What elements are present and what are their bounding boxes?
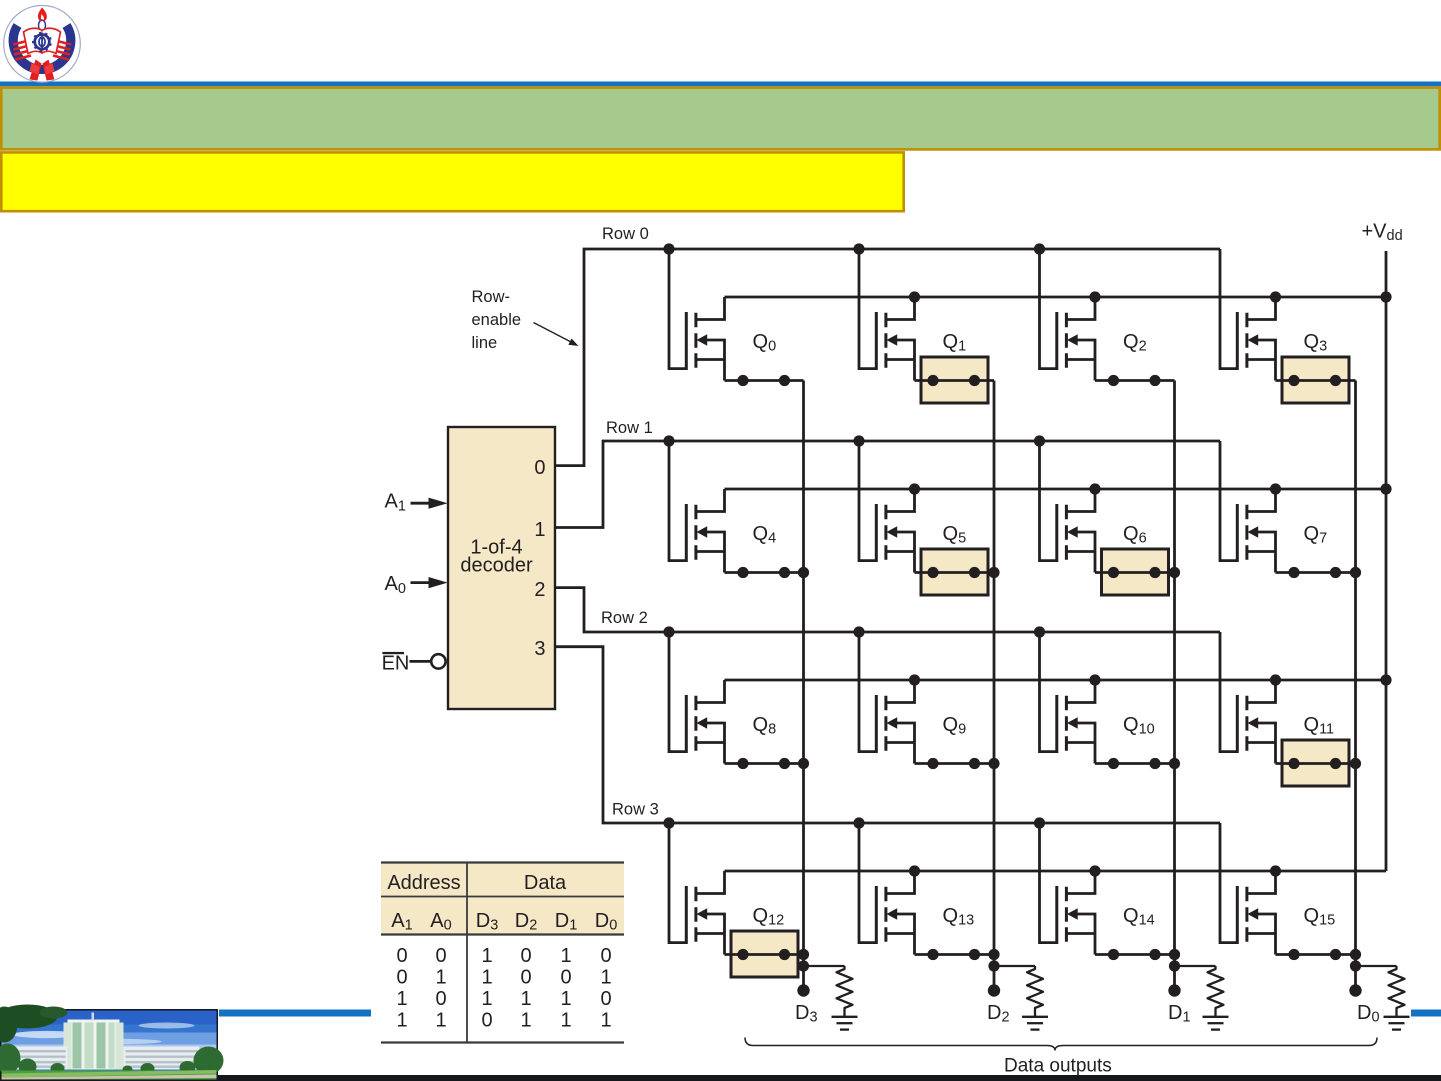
column D3 junction dots — [798, 567, 809, 972]
transistor Q9 — [859, 632, 994, 764]
svg-text:D2: D2 — [987, 1002, 1010, 1026]
svg-text:1: 1 — [481, 945, 492, 967]
svg-text:decoder: decoder — [460, 555, 533, 577]
transistor Q4 — [669, 441, 804, 573]
output terminal D2 — [988, 984, 1000, 996]
1-of-4 decoder U1 — [448, 427, 555, 709]
svg-text:Q8: Q8 — [753, 714, 777, 738]
svg-text:Data outputs: Data outputs — [1004, 1056, 1112, 1077]
svg-text:Data: Data — [524, 872, 567, 894]
programmed cell box at Q3 — [1282, 357, 1349, 403]
decoder output pin labels 0 1 2 3 — [534, 457, 545, 660]
transistor Q13 — [859, 823, 994, 955]
yellow subtitle banner — [1, 152, 903, 211]
svg-text:1: 1 — [520, 1010, 531, 1032]
drain rail row 0 junction dots — [909, 291, 1392, 302]
transistor Q6 — [1040, 441, 1175, 573]
transistor Q11 — [1220, 632, 1356, 764]
svg-text:Q2: Q2 — [1123, 331, 1147, 355]
output terminal D3 — [797, 984, 809, 996]
svg-text:Q6: Q6 — [1123, 523, 1147, 547]
transistor Q15 — [1220, 823, 1356, 955]
source connection dots Q1 — [927, 375, 980, 386]
resistor tap wire D1 — [1175, 965, 1216, 967]
truth table header text — [387, 872, 567, 894]
source connection dots Q3 — [1288, 375, 1341, 386]
svg-text:Row-: Row- — [472, 288, 511, 306]
svg-text:EN: EN — [382, 653, 410, 675]
source connection dots Q12 — [737, 949, 790, 960]
svg-text:Q3: Q3 — [1304, 331, 1328, 355]
output terminal D0 — [1349, 984, 1361, 996]
source connection dots Q14 — [1108, 949, 1161, 960]
header blue rule — [0, 82, 1441, 87]
svg-text:Row 1: Row 1 — [606, 419, 653, 437]
node dots on row 3 line — [663, 817, 1045, 828]
svg-text:Address: Address — [387, 872, 460, 894]
green title banner — [1, 88, 1439, 150]
transistor Q8 — [669, 632, 804, 764]
truth table grid lines — [381, 863, 624, 1043]
source connection dots Q10 — [1108, 758, 1161, 769]
svg-text:Q15: Q15 — [1304, 905, 1336, 929]
svg-text:0: 0 — [600, 988, 611, 1010]
source connection dots Q8 — [737, 758, 790, 769]
truth table header fill — [381, 863, 624, 935]
data column line D3 — [802, 381, 805, 991]
truth table column heads — [391, 910, 617, 934]
svg-text:Q7: Q7 — [1304, 523, 1328, 547]
svg-text:1: 1 — [435, 1010, 446, 1032]
enable input EN (active low) — [382, 652, 446, 675]
svg-text:0: 0 — [560, 967, 571, 989]
transistor Q5 — [859, 441, 994, 573]
drain rail row 1 junction dots — [909, 483, 1392, 494]
svg-text:0: 0 — [600, 945, 611, 967]
svg-text:0: 0 — [520, 945, 531, 967]
resistor tap wire D0 — [1356, 965, 1397, 967]
svg-text:Q1: Q1 — [943, 331, 967, 355]
svg-text:D1: D1 — [1168, 1002, 1191, 1026]
svg-text:0: 0 — [396, 945, 407, 967]
node dots on row 0 line — [663, 243, 1045, 254]
row-enable line annotation — [472, 288, 579, 352]
svg-text:0: 0 — [435, 945, 446, 967]
column D1 junction dots — [1169, 567, 1180, 972]
source connection dots Q0 — [737, 375, 790, 386]
university logo — [4, 6, 81, 83]
svg-text:3: 3 — [534, 638, 545, 660]
transistor Q0 — [669, 249, 804, 381]
drain rail row 0 — [725, 296, 1387, 299]
source connection dots Q2 — [1108, 375, 1161, 386]
svg-text:1: 1 — [481, 988, 492, 1010]
svg-text:Q5: Q5 — [943, 523, 967, 547]
source connection dots Q6 — [1108, 567, 1161, 578]
data column line D2 — [993, 381, 996, 991]
+Vdd vertical supply line — [1385, 251, 1388, 871]
pull-down resistor at D2 — [1027, 966, 1043, 1016]
ground symbol at D1 — [1203, 1017, 1229, 1030]
input A1 — [385, 491, 448, 515]
svg-text:+Vdd: +Vdd — [1362, 221, 1403, 245]
svg-text:Q11: Q11 — [1304, 714, 1335, 738]
svg-text:1: 1 — [534, 519, 545, 541]
output terminal D1 — [1168, 984, 1180, 996]
node dots on row 2 line — [663, 626, 1045, 637]
pull-down resistor at D3 — [837, 966, 853, 1016]
svg-text:Row 2: Row 2 — [601, 609, 648, 627]
transistor Q14 — [1040, 823, 1175, 955]
bottom right blue rule — [1411, 1010, 1441, 1017]
input A0 — [385, 573, 448, 597]
svg-text:Q10: Q10 — [1123, 714, 1155, 738]
transistor Q12 — [669, 823, 804, 955]
svg-text:A0: A0 — [385, 573, 406, 597]
svg-text:0: 0 — [435, 988, 446, 1010]
transistor Q2 — [1040, 249, 1175, 381]
svg-text:Q12: Q12 — [753, 905, 785, 929]
bottom black rule — [0, 1075, 1441, 1081]
svg-text:0: 0 — [481, 1010, 492, 1032]
programmed cell box at Q6 — [1102, 549, 1169, 595]
svg-text:Row 0: Row 0 — [602, 225, 649, 243]
drain rail row 2 junction dots — [909, 674, 1392, 685]
svg-text:1: 1 — [435, 967, 446, 989]
transistor Q10 — [1040, 632, 1175, 764]
svg-text:1: 1 — [396, 988, 407, 1010]
node dots on row 1 line — [663, 435, 1045, 446]
pull-down resistor at D0 — [1389, 966, 1405, 1016]
source connection dots Q13 — [927, 949, 980, 960]
svg-text:Q13: Q13 — [943, 905, 975, 929]
data outputs brace — [745, 1038, 1377, 1051]
column D2 junction dots — [988, 567, 999, 972]
resistor tap wire D2 — [994, 965, 1035, 967]
svg-text:Row 3: Row 3 — [612, 801, 659, 819]
programmed cell box at Q5 — [921, 549, 988, 595]
transistor Q7 — [1220, 441, 1356, 573]
svg-text:1: 1 — [481, 967, 492, 989]
transistor Q1 — [859, 249, 994, 381]
drain rail row 3 — [725, 870, 1387, 873]
svg-text:1: 1 — [520, 988, 531, 1010]
svg-text:line: line — [472, 334, 498, 352]
source connection dots Q7 — [1288, 567, 1341, 578]
source connection dots Q9 — [927, 758, 980, 769]
bottom left blue rule — [219, 1010, 371, 1017]
truth table data rows — [396, 945, 611, 1032]
svg-text:1: 1 — [396, 1010, 407, 1032]
svg-text:0: 0 — [396, 967, 407, 989]
source connection dots Q4 — [737, 567, 790, 578]
svg-text:0: 0 — [520, 967, 531, 989]
wire row 1 enable line from decoder pin 1 — [555, 441, 1220, 528]
resistor tap wire D3 — [804, 965, 845, 967]
wire row 0 enable line from decoder pin 0 — [555, 249, 1220, 466]
drain rail row 1 — [725, 488, 1387, 491]
svg-text:2: 2 — [534, 579, 545, 601]
svg-text:Q4: Q4 — [753, 523, 777, 547]
programmed cell box at Q11 — [1282, 740, 1349, 786]
svg-text:enable: enable — [472, 311, 522, 329]
transistor Q3 — [1220, 249, 1356, 381]
programmed cell box at Q12 — [731, 931, 798, 977]
svg-text:Q9: Q9 — [943, 714, 967, 738]
svg-text:1: 1 — [560, 988, 571, 1010]
ground symbol at D2 — [1022, 1017, 1048, 1030]
pull-down resistor at D1 — [1208, 966, 1224, 1016]
source connection dots Q15 — [1288, 949, 1341, 960]
ground symbol at D3 — [832, 1017, 858, 1030]
svg-text:A1: A1 — [385, 491, 406, 515]
svg-text:1: 1 — [560, 945, 571, 967]
programmed cell box at Q1 — [921, 357, 988, 403]
svg-text:1: 1 — [600, 1010, 611, 1032]
data column line D0 — [1354, 381, 1357, 991]
svg-text:Q0: Q0 — [753, 331, 777, 355]
svg-text:0: 0 — [534, 457, 545, 479]
column D0 junction dots — [1350, 567, 1361, 972]
data column line D1 — [1173, 381, 1176, 991]
source connection dots Q5 — [927, 567, 980, 578]
svg-text:Q14: Q14 — [1123, 905, 1155, 929]
drain rail row 2 — [725, 679, 1387, 682]
campus photo — [0, 1005, 224, 1081]
wire row 2 enable line from decoder pin 2 — [555, 588, 1220, 632]
wire row 3 enable line from decoder pin 3 — [555, 647, 1220, 823]
ground symbol at D0 — [1384, 1017, 1410, 1030]
svg-text:D0: D0 — [1357, 1002, 1380, 1026]
svg-text:1: 1 — [600, 967, 611, 989]
svg-text:D3: D3 — [795, 1002, 818, 1026]
svg-text:1: 1 — [560, 1010, 571, 1032]
source connection dots Q11 — [1288, 758, 1341, 769]
drain rail row 3 junction dots — [909, 865, 1281, 876]
